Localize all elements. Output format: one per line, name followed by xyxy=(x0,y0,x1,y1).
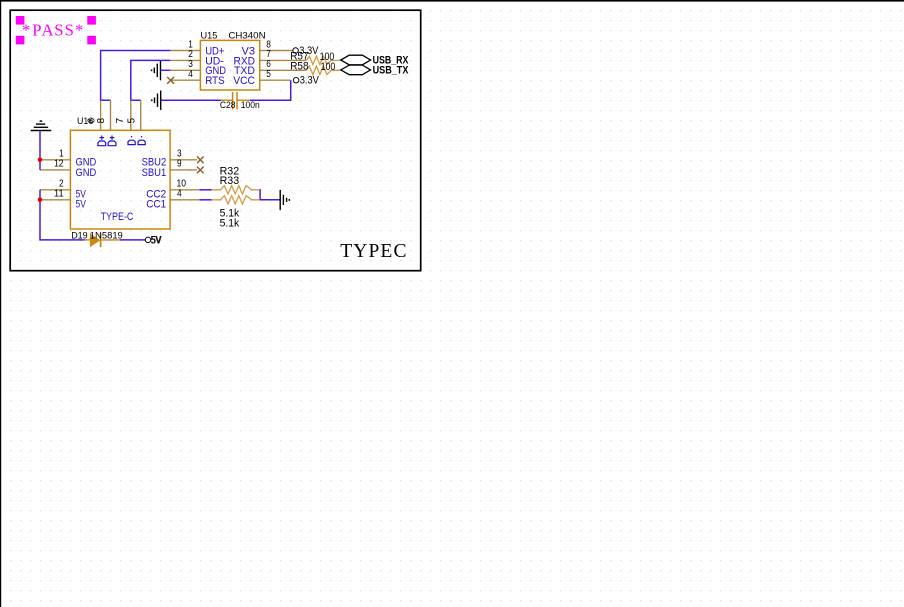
wire ground to U16 GND pins xyxy=(39,131,41,170)
no-connect X on SBU2 xyxy=(197,157,204,164)
wire CC2 to R32 xyxy=(200,189,212,191)
svg-text:S: S xyxy=(65,20,74,39)
svg-text:CC1: CC1 xyxy=(146,199,166,211)
svg-text:12: 12 xyxy=(54,159,64,170)
svg-text:VCC: VCC xyxy=(233,75,255,87)
wire ground to C28 xyxy=(161,99,221,101)
svg-text:4: 4 xyxy=(177,189,182,200)
svg-text:R58: R58 xyxy=(290,61,308,73)
ground (CC resistors) xyxy=(280,190,289,210)
wire to CC ground xyxy=(260,199,280,201)
svg-text:A: A xyxy=(42,20,54,39)
svg-text:TYPE-C: TYPE-C xyxy=(101,211,134,223)
wire U15 GND pin to ground xyxy=(161,69,171,71)
svg-text:SBU1: SBU1 xyxy=(142,167,167,179)
U16 pin 1 GND xyxy=(40,149,96,169)
U16 top pin 8 xyxy=(96,100,111,130)
U16 pin 2 5V xyxy=(40,179,86,201)
ground (top-left) xyxy=(31,121,52,130)
resistor R33 xyxy=(212,196,261,230)
junction on GND wire xyxy=(38,158,43,163)
wire diode to 5V flag xyxy=(120,239,146,241)
no-connect X on RTS xyxy=(167,77,174,84)
svg-text:1N5819: 1N5819 xyxy=(90,230,123,241)
U16 pin 12 GND xyxy=(40,159,96,179)
capacitor C28 100n xyxy=(220,92,260,111)
svg-text:100n: 100n xyxy=(241,100,260,111)
svg-text:5V: 5V xyxy=(151,234,162,246)
wire VCC down to C28 xyxy=(250,80,291,100)
wire 5V rail down to diode xyxy=(40,190,85,240)
ground (U15 GND pin) xyxy=(152,61,161,80)
svg-text:5: 5 xyxy=(266,69,271,80)
svg-text:7: 7 xyxy=(115,118,126,123)
svg-text:4: 4 xyxy=(188,69,193,80)
U16 pin 9 SBU1 xyxy=(142,159,198,179)
U16 pin 4 CC1 xyxy=(146,189,199,211)
title *PASS* with selection handles xyxy=(16,16,96,44)
connector U16 TYPE-C body xyxy=(70,116,170,229)
svg-text:5.1k: 5.1k xyxy=(220,217,240,229)
ground (C28 net) xyxy=(152,91,161,110)
svg-text:*: * xyxy=(75,20,83,39)
svg-text:100: 100 xyxy=(321,61,336,73)
pin polarity marks inside U16 xyxy=(98,136,145,146)
U15 pin 4 RTS xyxy=(170,69,225,87)
svg-text:GND: GND xyxy=(76,167,97,179)
svg-text:5: 5 xyxy=(127,117,138,123)
U15 pin 3 GND xyxy=(170,59,226,77)
U15 pin 8 V3 xyxy=(242,39,293,57)
U15 pin 6 TXD xyxy=(234,59,306,77)
IC U15 CH340N body xyxy=(200,31,265,90)
U16 top pin 7 xyxy=(115,100,131,130)
net flag 3.3V on V3 xyxy=(293,45,319,57)
port USB_RX xyxy=(341,54,409,66)
net flag 5V xyxy=(145,234,162,246)
U16 pin 3 SBU2 xyxy=(142,149,198,169)
U16 top pin 6 xyxy=(87,100,101,130)
svg-text:TYPEC: TYPEC xyxy=(340,241,407,262)
svg-text:*: * xyxy=(22,20,30,39)
no-connect X on SBU1 xyxy=(197,167,204,174)
port USB_TX xyxy=(341,64,409,76)
U15 pin 1 UD+ xyxy=(170,39,224,57)
wire CC1 to R33 xyxy=(200,199,212,201)
resistor R58 xyxy=(290,61,341,75)
svg-text:8: 8 xyxy=(96,117,107,123)
wire R32 elbow down xyxy=(259,190,261,200)
svg-text:5V: 5V xyxy=(76,199,87,211)
resistor R57 xyxy=(290,51,341,65)
svg-text:CH340N: CH340N xyxy=(228,31,265,42)
wire net UD+ (U15 pin1 to U16 pins 6,8) xyxy=(101,51,171,101)
svg-text:S: S xyxy=(54,20,63,39)
svg-text:C28: C28 xyxy=(220,100,236,111)
svg-text:9: 9 xyxy=(177,159,182,170)
svg-text:R33: R33 xyxy=(220,175,240,187)
U15 pin 7 RXD xyxy=(234,49,307,67)
wire net UD- (U15 pin2 to U16 pins 7,5) xyxy=(131,60,171,100)
svg-text:3.3V: 3.3V xyxy=(300,75,320,87)
U16 top pin 5 xyxy=(127,100,141,130)
U15 pin 5 VCC xyxy=(233,69,291,87)
svg-text:D19: D19 xyxy=(71,230,88,241)
resistor R32 xyxy=(212,166,260,195)
svg-text:11: 11 xyxy=(54,189,64,200)
U16 pin 10 CC2 xyxy=(146,179,199,201)
diode D19 1N5819 xyxy=(71,230,123,247)
svg-text:U15: U15 xyxy=(201,31,218,42)
svg-text:RTS: RTS xyxy=(205,75,225,87)
net flag 3.3V on VCC xyxy=(293,75,319,87)
U16 pin 11 5V xyxy=(40,189,86,211)
svg-text:P: P xyxy=(32,20,41,39)
U15 pin 2 UD- xyxy=(170,49,223,67)
svg-text:USB_TX: USB_TX xyxy=(373,64,409,76)
junction on 5V wire xyxy=(38,198,43,203)
